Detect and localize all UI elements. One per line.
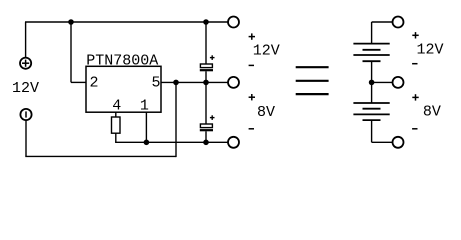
svg-text:8V: 8V [423, 104, 441, 121]
svg-text:8V: 8V [257, 104, 275, 121]
svg-text:5: 5 [151, 74, 160, 91]
svg-text:12V: 12V [12, 80, 39, 97]
svg-text:12V: 12V [416, 42, 443, 59]
svg-text:12V: 12V [253, 43, 280, 60]
svg-text:2: 2 [89, 74, 98, 91]
svg-text:1: 1 [140, 98, 149, 115]
svg-text:4: 4 [112, 98, 121, 115]
svg-text:PTN7800A: PTN7800A [86, 53, 158, 70]
